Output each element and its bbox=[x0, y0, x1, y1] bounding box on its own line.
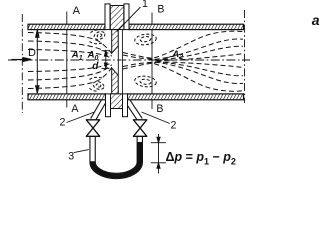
svg-text:3: 3 bbox=[68, 150, 74, 162]
svg-text:1: 1 bbox=[142, 0, 148, 10]
svg-text:B: B bbox=[156, 103, 163, 115]
svg-text:2: 2 bbox=[171, 120, 177, 132]
svg-text:A: A bbox=[73, 5, 81, 17]
svg-text:a: a bbox=[312, 12, 320, 28]
svg-text:A: A bbox=[71, 103, 79, 115]
svg-text:2: 2 bbox=[60, 117, 66, 129]
svg-text:D: D bbox=[28, 47, 36, 59]
svg-text:B: B bbox=[157, 3, 164, 15]
svg-text:d: d bbox=[92, 61, 99, 72]
